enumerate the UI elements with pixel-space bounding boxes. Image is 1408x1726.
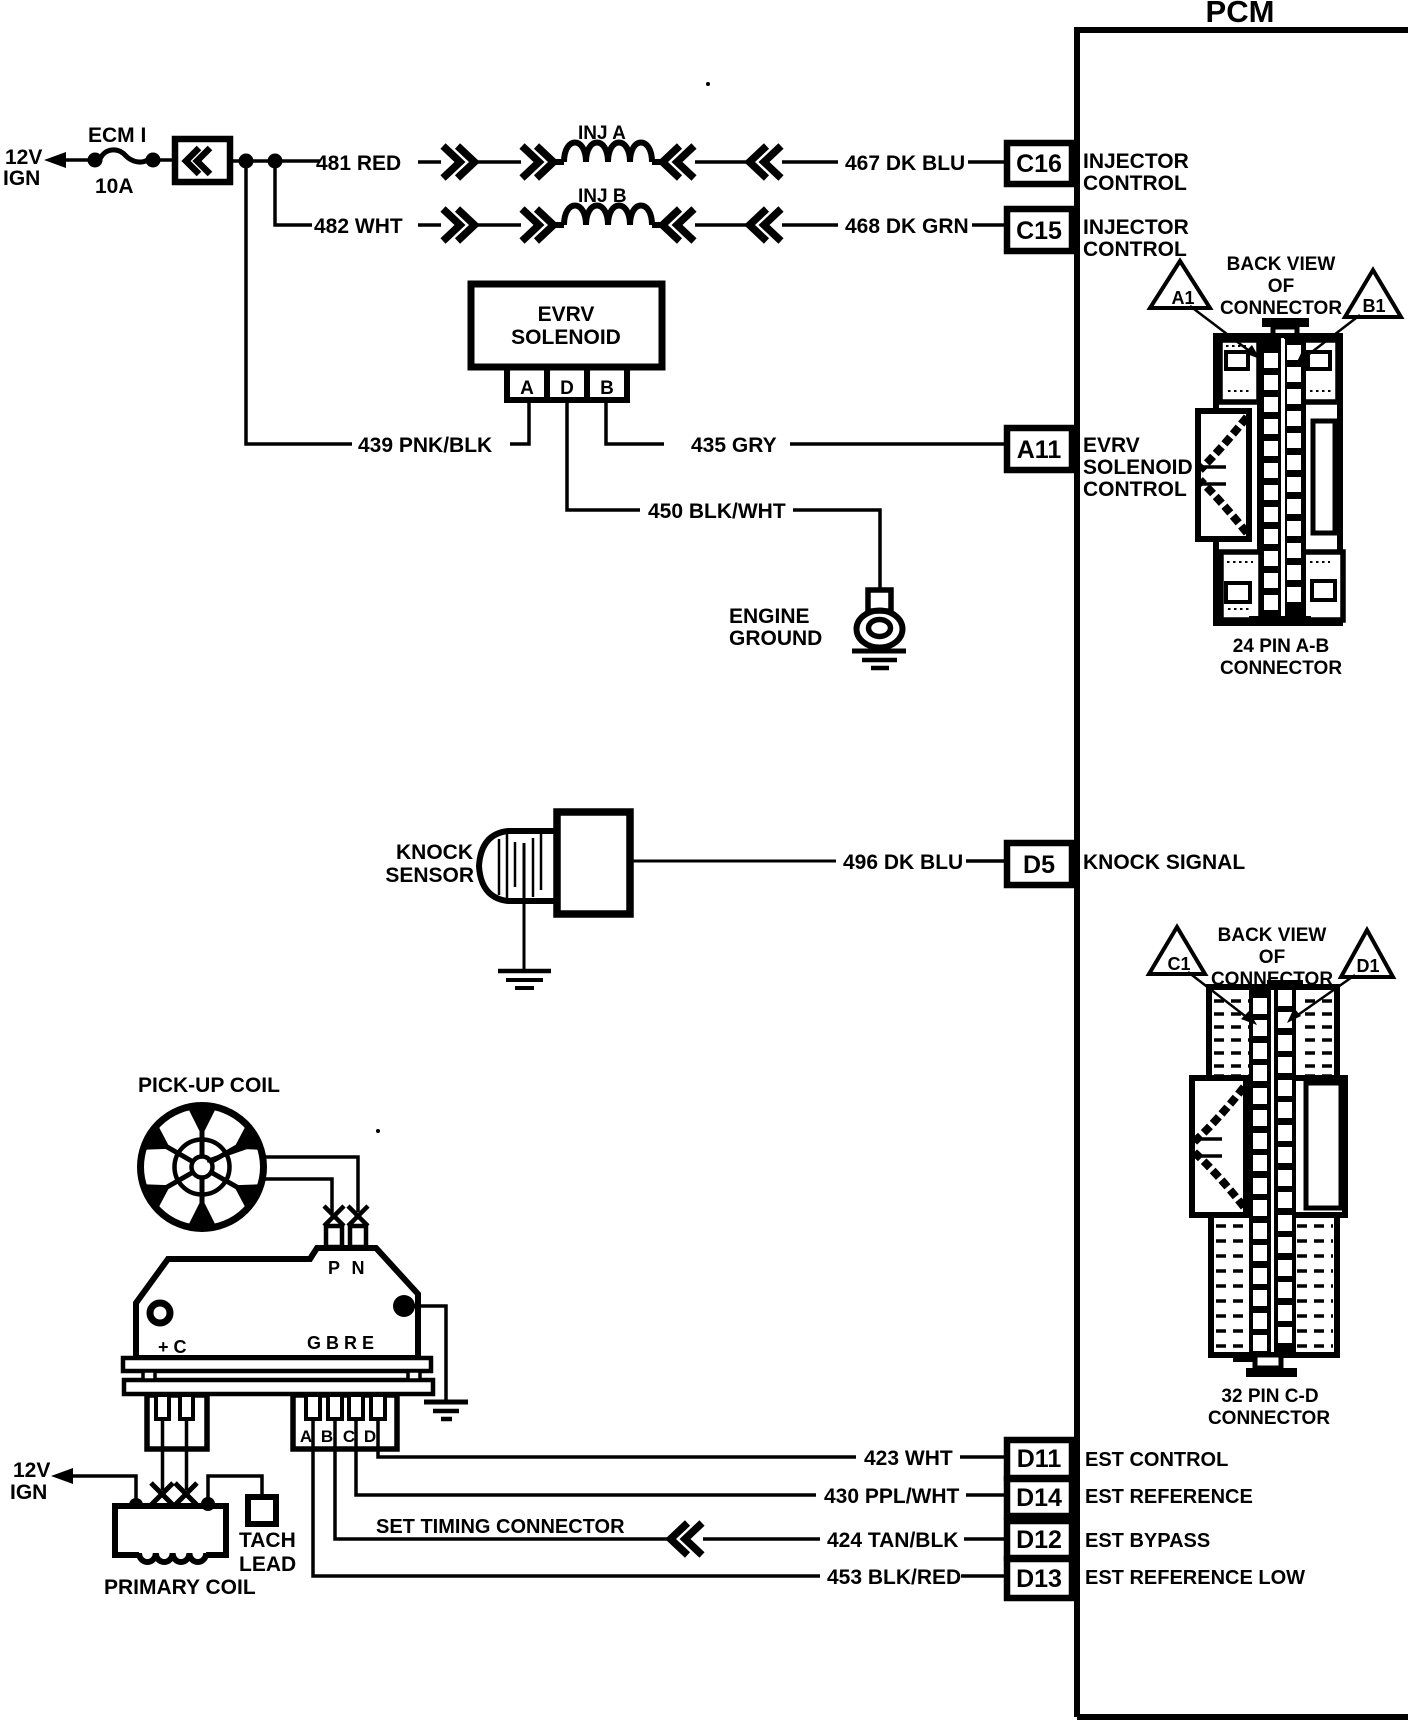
leader B1: [1304, 315, 1360, 358]
svg-text:424 TAN/BLK: 424 TAN/BLK: [827, 1529, 958, 1552]
connector arrows left: [750, 209, 782, 241]
module body: [136, 1248, 418, 1358]
svg-text:TACH: TACH: [239, 1529, 296, 1552]
svg-text:D: D: [364, 1427, 376, 1446]
bottom key tab: [1233, 1355, 1255, 1362]
svg-text:EVRV: EVRV: [1083, 434, 1140, 457]
injector coil INJ B: [564, 206, 652, 226]
wire stub: [418, 160, 441, 164]
ground: [852, 649, 906, 654]
svg-text:D11: D11: [1017, 1445, 1062, 1473]
svg-text:450 BLK/WHT: 450 BLK/WHT: [648, 500, 786, 523]
wire: [972, 223, 1007, 227]
wire to engine ground: [793, 510, 880, 592]
wire: [782, 223, 838, 227]
module ground stud: [393, 1295, 415, 1317]
svg-text:OF: OF: [1268, 276, 1294, 297]
wire: [966, 859, 1007, 863]
SECTION: 24 pin connector: [1150, 254, 1401, 679]
right top cavity: [1303, 340, 1338, 402]
svg-text:B: B: [321, 1427, 333, 1446]
wire branch down to 482 WHT: [275, 161, 312, 225]
svg-text:C16: C16: [1016, 150, 1062, 178]
bottom hatching: [1216, 1226, 1333, 1346]
wire pin B down: [606, 400, 664, 444]
svg-text:496 DK BLU: 496 DK BLU: [843, 851, 963, 874]
pin column divider: [1271, 990, 1274, 1352]
svg-text:435 GRY: 435 GRY: [691, 434, 777, 457]
splice X X on coil: [151, 1483, 197, 1505]
SECTION: distributor / ignition module: [10, 1074, 468, 1599]
pin column A: [1260, 338, 1281, 622]
knock sensor body: [557, 812, 630, 914]
svg-text:+ C: + C: [158, 1337, 187, 1357]
mounting hole: [150, 1303, 170, 1323]
PCM pin D11: [1007, 1440, 1072, 1478]
wire pin A to 439 PNK/BLK: [510, 400, 529, 444]
fuse ECM I 10A: [88, 153, 103, 168]
callout B1: [1345, 270, 1401, 317]
EVRV pin tray: [507, 367, 627, 400]
svg-text:439 PNK/BLK: 439 PNK/BLK: [358, 434, 492, 457]
svg-text:CONTROL: CONTROL: [1083, 478, 1187, 501]
callout C1: [1149, 927, 1205, 974]
svg-text:P: P: [328, 1258, 340, 1278]
svg-text:A1: A1: [1171, 288, 1194, 308]
svg-text:ECM I: ECM I: [88, 124, 146, 147]
left top cavity: [1220, 340, 1259, 402]
svg-text:CONTROL: CONTROL: [1083, 172, 1187, 195]
svg-text:481 RED: 481 RED: [316, 152, 401, 175]
wire to tach lead: [208, 1476, 262, 1504]
wire pick-up to N: [263, 1157, 358, 1212]
svg-text:CONTROL: CONTROL: [1083, 238, 1187, 261]
svg-text:GROUND: GROUND: [729, 627, 822, 650]
primary coil: [115, 1506, 226, 1555]
wire from box to branches: [230, 159, 320, 163]
wire A to D13: [313, 1419, 820, 1576]
wire stud to ground: [404, 1306, 446, 1401]
svg-text:C1: C1: [1167, 954, 1190, 974]
wire to D5: [630, 860, 836, 863]
svg-text:A: A: [300, 1427, 312, 1446]
svg-text:467 DK BLU: 467 DK BLU: [845, 152, 965, 175]
bottom section: [1211, 1215, 1337, 1355]
connector arrows right: [522, 209, 554, 241]
pin column D: [1274, 990, 1296, 1352]
ground: [424, 1400, 468, 1405]
pin column divider: [1281, 338, 1284, 622]
connector arrows right: [443, 146, 475, 178]
wire to A11: [790, 442, 1007, 446]
wire B to D12: [335, 1419, 670, 1539]
svg-text:D1: D1: [1356, 956, 1379, 976]
svg-text:A: A: [520, 378, 534, 399]
svg-text:SOLENOID: SOLENOID: [511, 326, 621, 349]
svg-text:D: D: [560, 378, 574, 399]
svg-text:G B R E: G B R E: [307, 1333, 374, 1353]
svg-text:PICK-UP COIL: PICK-UP COIL: [138, 1074, 280, 1097]
svg-text:SENSOR: SENSOR: [385, 864, 474, 887]
leader D1: [1295, 975, 1355, 1017]
inline connector symbol (chevron box): [175, 139, 230, 182]
PCM pin D14: [1007, 1479, 1072, 1516]
wire branch down to 439 PNK/BLK: [246, 161, 352, 444]
svg-text:10A: 10A: [95, 175, 134, 198]
junction: [129, 1498, 143, 1512]
module mounting plate: [123, 1358, 431, 1371]
left middle cavity with key: [1192, 1078, 1246, 1215]
pin column B: [1285, 338, 1306, 622]
bottom key tab: [1249, 616, 1311, 625]
wire into coil: [553, 222, 564, 228]
pick-up coil reluctor: [141, 1106, 264, 1229]
wire: [695, 223, 751, 227]
svg-text:PCM: PCM: [1206, 0, 1275, 29]
svg-text:CONNECTOR: CONNECTOR: [1220, 658, 1342, 679]
wire: [695, 160, 751, 164]
svg-text:BACK VIEW: BACK VIEW: [1227, 254, 1336, 275]
stray dot: [376, 1129, 380, 1133]
stray dot: [706, 82, 710, 86]
ground: [498, 969, 551, 974]
svg-text:INJECTOR: INJECTOR: [1083, 216, 1189, 239]
wire: [782, 160, 838, 164]
left middle cavity with key: [1198, 411, 1249, 539]
svg-text:468 DK GRN: 468 DK GRN: [845, 215, 969, 238]
wire: [968, 160, 1007, 164]
PCM pin D12: [1007, 1521, 1072, 1558]
svg-text:EST CONTROL: EST CONTROL: [1085, 1449, 1228, 1471]
wire: [474, 160, 521, 164]
engine ground lug: [868, 590, 891, 611]
right terminal block ABCD: [293, 1395, 397, 1449]
middle section: [1192, 1078, 1345, 1215]
svg-text:OF: OF: [1259, 947, 1285, 968]
svg-text:KNOCK SIGNAL: KNOCK SIGNAL: [1083, 851, 1245, 874]
splice X at P: [324, 1206, 344, 1226]
tach lead terminal: [248, 1497, 276, 1524]
wire pick-up to P: [263, 1179, 332, 1212]
left bottom cavity: [1221, 552, 1261, 620]
wire: [474, 223, 521, 227]
wire stub: [418, 223, 441, 227]
wire D to D11: [378, 1419, 856, 1457]
connector arrows left: [663, 209, 695, 241]
svg-text:A11: A11: [1017, 436, 1062, 464]
svg-text:KNOCK: KNOCK: [396, 841, 473, 864]
left terminal block: [147, 1395, 207, 1449]
right bottom cavity: [1303, 552, 1343, 620]
wire: [652, 159, 666, 165]
injector coil INJ A: [564, 143, 652, 163]
svg-text:32 PIN C-D: 32 PIN C-D: [1221, 1386, 1318, 1407]
svg-text:CONNECTOR: CONNECTOR: [1220, 298, 1342, 319]
SECTION: 32 pin connector: [1149, 925, 1393, 1429]
knock sensor capsule: [479, 831, 558, 901]
right middle cavity: [1306, 1083, 1341, 1208]
svg-text:482 WHT: 482 WHT: [314, 215, 403, 238]
svg-text:423 WHT: 423 WHT: [864, 1447, 953, 1470]
svg-text:453 BLK/RED: 453 BLK/RED: [827, 1566, 961, 1589]
svg-text:IGN: IGN: [10, 1481, 47, 1504]
SECTION: top left power feed: [3, 82, 710, 444]
wire into coil: [553, 159, 564, 165]
wire: [652, 222, 666, 228]
leader A1: [1190, 306, 1252, 353]
svg-text:IGN: IGN: [3, 167, 40, 190]
junction: [268, 154, 283, 169]
svg-text:SOLENOID: SOLENOID: [1083, 456, 1193, 479]
connector arrows right: [522, 146, 554, 178]
svg-text:BACK VIEW: BACK VIEW: [1218, 925, 1327, 946]
PCM pin A11: [1007, 428, 1072, 470]
right middle cavity: [1313, 421, 1335, 533]
wire pin D down to 450 BLK/WHT: [567, 400, 640, 510]
connector arrows left: [750, 146, 782, 178]
svg-text:D5: D5: [1023, 851, 1055, 879]
svg-text:D12: D12: [1016, 1526, 1062, 1554]
connector arrows left: [663, 146, 695, 178]
svg-text:N: N: [352, 1258, 365, 1278]
callout D1: [1341, 930, 1393, 977]
svg-text:EST REFERENCE LOW: EST REFERENCE LOW: [1085, 1567, 1305, 1589]
svg-text:INJ B: INJ B: [578, 186, 627, 207]
terminal N: [350, 1226, 366, 1247]
connector 24pin body: [1262, 318, 1309, 327]
pin column C: [1249, 990, 1271, 1352]
junction: [239, 154, 254, 169]
SECTION: EVRV: [358, 284, 1193, 668]
svg-text:12V: 12V: [5, 146, 42, 169]
wire to ground: [523, 843, 526, 970]
SECTION: injector rows: [314, 123, 1189, 261]
SECTION: bottom wires to PCM: [313, 1419, 1305, 1598]
PCM module box: [1077, 27, 1408, 1717]
connector arrows right: [443, 209, 475, 241]
SECTION: knock sensor: [385, 812, 1245, 988]
terminal P: [326, 1226, 342, 1247]
PCM pin D5: [1007, 843, 1072, 885]
svg-text:C: C: [343, 1427, 355, 1446]
leader C1: [1188, 972, 1249, 1019]
wire fuse to connector box: [158, 158, 174, 162]
svg-text:CONNECTOR: CONNECTOR: [1208, 1408, 1330, 1429]
svg-text:24 PIN A-B: 24 PIN A-B: [1233, 636, 1329, 657]
svg-text:INJECTOR: INJECTOR: [1083, 150, 1189, 173]
wire to primary coil: [66, 1476, 136, 1505]
svg-text:12V: 12V: [13, 1459, 50, 1482]
svg-text:LEAD: LEAD: [239, 1553, 296, 1576]
svg-text:B: B: [600, 378, 614, 399]
PCM pin C16: [1007, 143, 1072, 184]
svg-text:D14: D14: [1016, 1484, 1062, 1512]
PCM pin D13: [1007, 1559, 1072, 1598]
svg-text:EVRV: EVRV: [538, 303, 595, 326]
svg-text:ENGINE: ENGINE: [729, 605, 810, 628]
wire C to D14: [356, 1419, 816, 1495]
callout A1: [1150, 261, 1210, 308]
svg-text:EST BYPASS: EST BYPASS: [1085, 1530, 1210, 1552]
splice X at N: [348, 1206, 368, 1226]
svg-text:SET TIMING CONNECTOR: SET TIMING CONNECTOR: [376, 1516, 625, 1538]
EVRV solenoid body: [471, 284, 662, 367]
connector 32pin body: [1267, 980, 1303, 987]
wire arrow to 12V IGN: [44, 152, 66, 168]
svg-text:B1: B1: [1362, 296, 1385, 316]
svg-text:D13: D13: [1016, 1565, 1062, 1593]
top hatching: [1214, 1001, 1332, 1076]
wires + C to primary coil: [161, 1419, 165, 1490]
svg-text:C15: C15: [1016, 217, 1062, 245]
svg-text:EST REFERENCE: EST REFERENCE: [1085, 1486, 1253, 1508]
svg-text:430 PPL/WHT: 430 PPL/WHT: [824, 1485, 960, 1508]
svg-text:PRIMARY COIL: PRIMARY COIL: [104, 1576, 256, 1599]
PCM pin C15: [1007, 209, 1072, 251]
junction: [201, 1497, 215, 1511]
svg-text:INJ A: INJ A: [578, 123, 626, 144]
